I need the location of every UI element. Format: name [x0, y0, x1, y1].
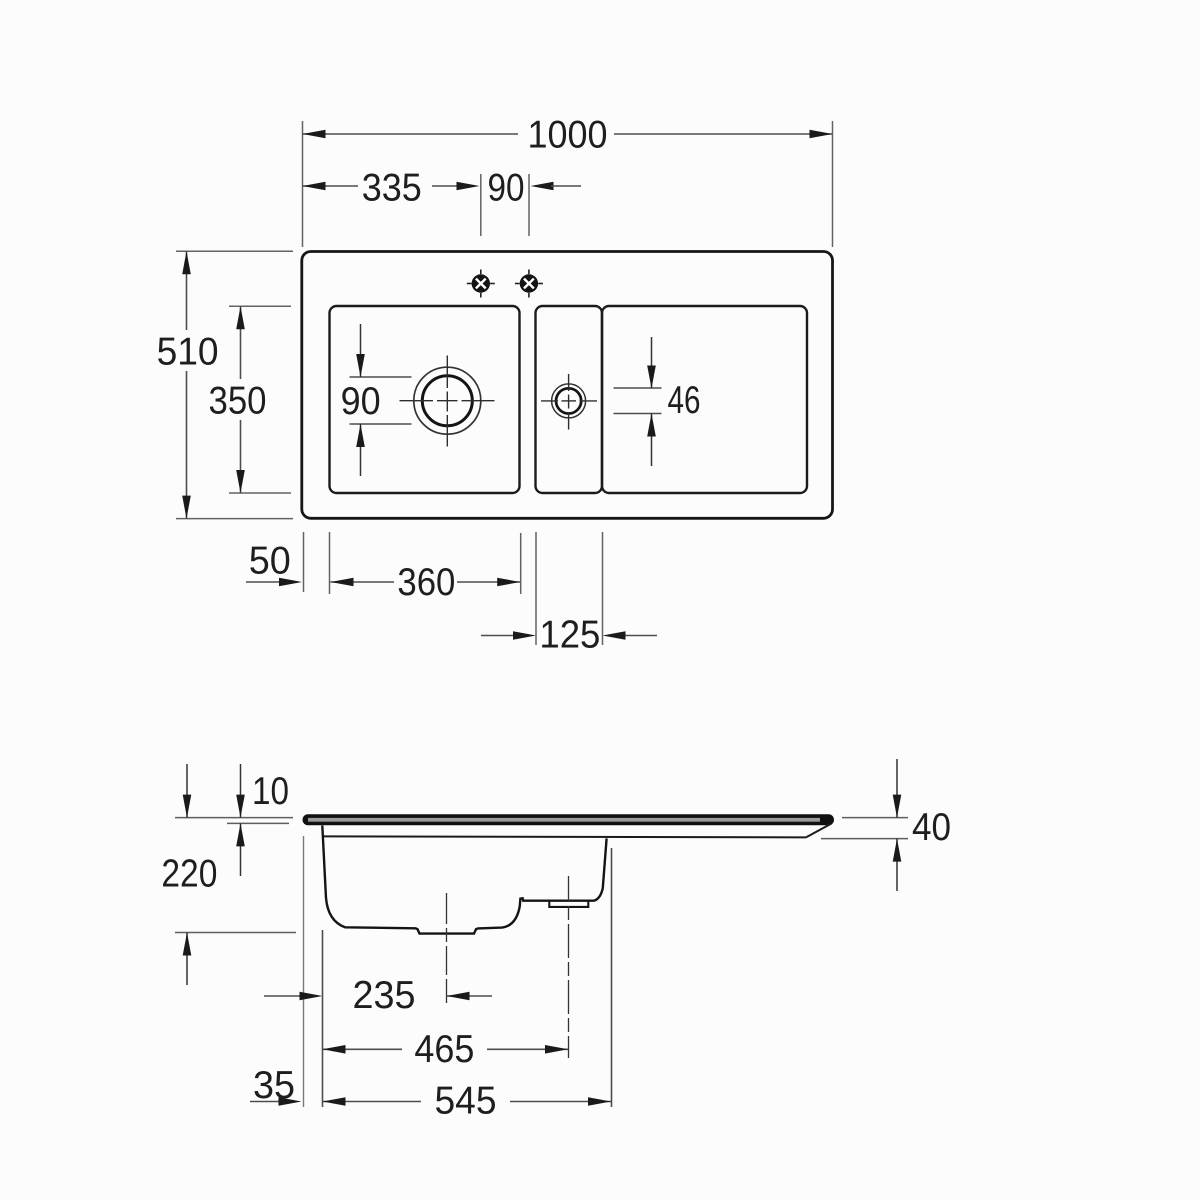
middle bowl drain hole — [556, 388, 581, 413]
faucet hole 2 — [515, 270, 543, 298]
big bowl drain centerline — [446, 893, 448, 1003]
dim 220 arrows — [186, 764, 188, 818]
svg-text:10: 10 — [252, 770, 289, 813]
faucet hole 1 — [467, 270, 495, 298]
left bowl — [330, 306, 520, 493]
dim 10 bottom ext line — [227, 822, 289, 824]
dim 90 drain ticks — [350, 377, 412, 424]
dim 545 — [323, 1101, 612, 1103]
left bowl drain outer ring — [414, 367, 481, 434]
svg-text:335: 335 — [362, 167, 422, 210]
dim 465 — [323, 1048, 569, 1050]
svg-text:50: 50 — [249, 540, 291, 583]
middle drain crosshair — [541, 374, 597, 430]
rim slab — [303, 814, 835, 825]
dim 50 — [246, 581, 294, 583]
svg-text:40: 40 — [912, 806, 951, 849]
dim 90 drain arrows — [360, 324, 362, 377]
svg-text:350: 350 — [209, 380, 267, 423]
ext line bowl left wall — [322, 930, 324, 1107]
dim 1000 — [303, 133, 833, 135]
dim 360 — [331, 581, 521, 583]
svg-text:125: 125 — [539, 614, 600, 657]
drainboard panel — [602, 306, 807, 493]
dim 360 extension lines — [520, 533, 522, 594]
svg-text:510: 510 — [157, 330, 219, 373]
svg-text:545: 545 — [435, 1080, 497, 1123]
dim 35 — [250, 1101, 294, 1103]
dim 1000 extension lines — [303, 121, 833, 247]
bowl underside profile — [322, 826, 606, 934]
svg-text:360: 360 — [397, 561, 455, 604]
deck underside line — [324, 836, 806, 837]
middle bowl drain flange — [549, 901, 588, 907]
svg-text:90: 90 — [341, 380, 381, 423]
middle drain centerline — [568, 876, 570, 1058]
faucet hole extension lines — [481, 174, 529, 236]
dim 350 — [240, 306, 242, 493]
left drain crosshair — [400, 356, 495, 447]
dim 335 — [303, 185, 463, 187]
ext line sink left edge — [303, 836, 305, 1107]
dim 510 extension lines — [176, 251, 293, 518]
dim 10/220 top ext line — [175, 817, 293, 819]
drainboard tip edge — [806, 824, 832, 838]
middle bowl — [536, 306, 603, 493]
sink outer rim — [302, 252, 833, 519]
svg-text:35: 35 — [253, 1064, 295, 1107]
dim 220 bottom ext line — [175, 932, 296, 934]
left bowl drain hole — [422, 376, 472, 426]
dim 40 arrows — [896, 759, 898, 818]
dim 235 — [264, 995, 315, 997]
svg-text:235: 235 — [353, 974, 416, 1017]
dim 10 arrows — [240, 764, 242, 818]
svg-text:46: 46 — [668, 379, 701, 422]
dim 125 extension lines — [536, 532, 603, 645]
svg-text:1000: 1000 — [528, 114, 608, 157]
dim 40 ext lines — [842, 817, 908, 819]
svg-text:220: 220 — [161, 853, 217, 896]
dim 50 extension lines — [304, 532, 330, 594]
dim 46 arrows — [651, 337, 653, 388]
dim 125 — [481, 635, 529, 637]
middle bowl drain outer ring — [552, 384, 586, 418]
dim 46 ticks — [614, 388, 662, 414]
ext line 545 right — [611, 848, 613, 1107]
svg-text:465: 465 — [414, 1028, 474, 1071]
svg-text:90: 90 — [488, 167, 525, 210]
dim 350 extension lines — [229, 306, 291, 493]
dim 510 — [186, 251, 188, 518]
